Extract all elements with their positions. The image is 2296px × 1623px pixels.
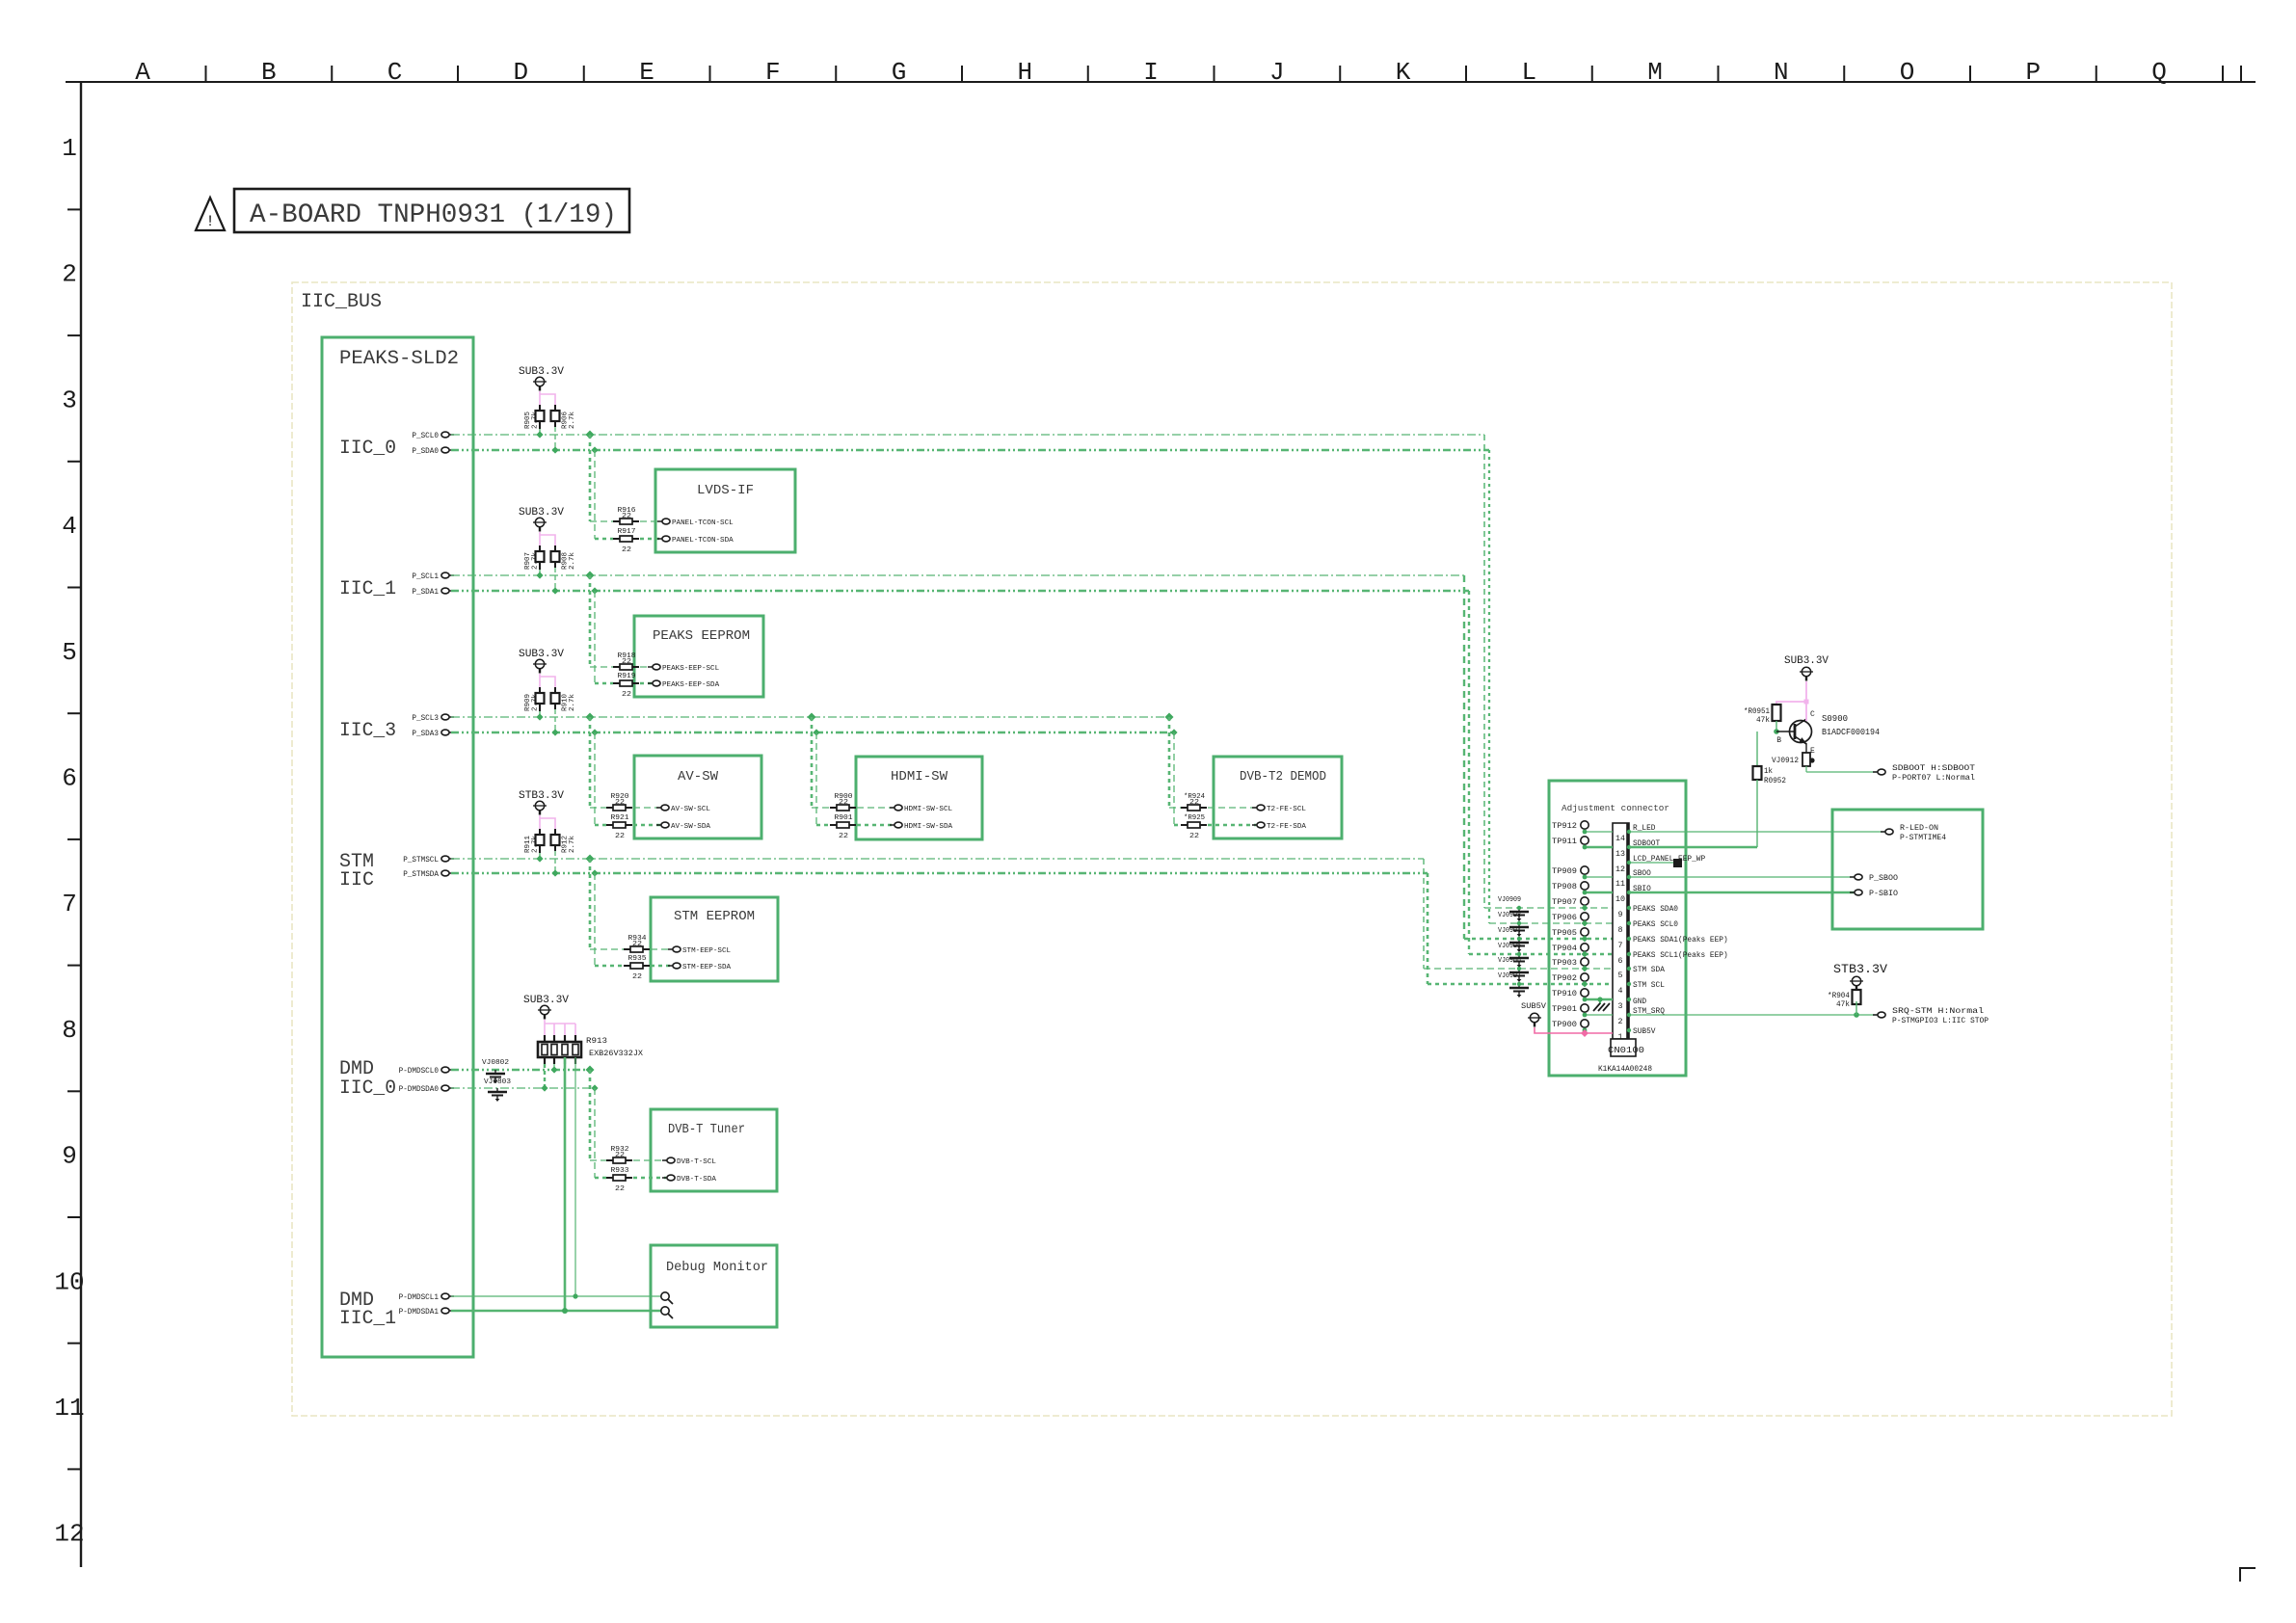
wire SDA1 riser (1468, 591, 1470, 954)
svg-text:K: K (1396, 58, 1411, 87)
corner registration mark (2240, 1568, 2256, 1582)
wire PEAKS SCL1 row (1469, 953, 1613, 956)
svg-text:*R925: *R925 (1184, 814, 1205, 822)
wire P-DMDSCL1 (451, 1295, 661, 1297)
wire R901 to pin (857, 824, 894, 827)
block AV-SW (634, 756, 761, 838)
ruler tick (67, 334, 81, 336)
resistor R924 22 (1181, 807, 1188, 809)
wire TP908 to pin10 (1585, 891, 1613, 894)
svg-text:A: A (135, 58, 150, 87)
svg-text:AV-SW-SCL: AV-SW-SCL (671, 806, 710, 813)
svg-text:P-SBIO: P-SBIO (1869, 890, 1898, 898)
svg-text:PEAKS-SLD2: PEAKS-SLD2 (339, 348, 459, 370)
svg-text:VJ0907: VJ0907 (1498, 972, 1521, 980)
wire pink pullup feed R907/R908 (539, 532, 541, 545)
ruler tick (1465, 66, 1467, 82)
svg-text:VJ0803: VJ0803 (484, 1078, 512, 1086)
svg-text:2.7k: 2.7k (532, 552, 540, 570)
wire drop to HDMI-SW SDA (813, 729, 819, 735)
wire drop to AV-SW SDA (591, 729, 598, 735)
svg-text:F: F (765, 58, 781, 87)
svg-text:TP908: TP908 (1552, 883, 1577, 891)
IIC_BUS boundary box (292, 282, 2172, 1416)
resistor R912 2.7k (554, 829, 556, 835)
svg-text:2.7k: 2.7k (532, 412, 540, 429)
svg-text:K1KA14A00248: K1KA14A00248 (1598, 1064, 1652, 1074)
svg-text:R917: R917 (618, 528, 636, 536)
svg-text:SUB3.3V: SUB3.3V (1784, 655, 1829, 667)
svg-text:G: G (892, 58, 907, 87)
svg-text:2: 2 (1618, 1018, 1623, 1026)
wire pink feed R913 (544, 1020, 546, 1035)
wire LCD_PANEL_EEP_WP stub (1629, 862, 1674, 864)
wire drop to PEAKS EEPROM SDA (591, 587, 598, 594)
svg-text:4: 4 (62, 512, 77, 541)
pin P_SBOO (1850, 876, 1855, 878)
svg-text:9: 9 (62, 1142, 77, 1171)
wire drop to DVB-T2 DEMOD SCL (1165, 713, 1174, 722)
wire R913 lead2 to DMD SCL0 (553, 1064, 555, 1070)
svg-text:VJ0908: VJ0908 (1498, 912, 1521, 919)
svg-text:R933: R933 (611, 1167, 630, 1175)
svg-text:11: 11 (1615, 880, 1625, 889)
wire R904 to SRQ row (1855, 1001, 1857, 1015)
svg-text:STM EEPROM: STM EEPROM (674, 909, 755, 924)
wire R0952 to SDBOOT row (1756, 780, 1758, 847)
resistor *R0951 47k (1773, 705, 1781, 721)
wire R932 to pin (633, 1159, 666, 1161)
svg-text:R-LED-ON: R-LED-ON (1900, 824, 1938, 833)
svg-text:5: 5 (62, 638, 77, 667)
svg-text:IIC_0: IIC_0 (339, 438, 396, 460)
block PEAKS EEPROM (634, 616, 763, 697)
wire R917 to pin (640, 538, 661, 541)
svg-text:3: 3 (62, 386, 77, 414)
wire R913 lead3 to DMD SDA1 (564, 1057, 567, 1311)
svg-text:SUB5V: SUB5V (1633, 1027, 1656, 1036)
svg-text:PEAKS-EEP-SDA: PEAKS-EEP-SDA (662, 681, 720, 689)
wire TP910 to pin3 GND (1585, 998, 1613, 1001)
jumper VJ0912 (1805, 743, 1807, 753)
svg-text:TP900: TP900 (1552, 1021, 1577, 1029)
block Adjustment connector (1549, 781, 1686, 1076)
wire SCL0 riser (1483, 435, 1485, 908)
pin HDMI-SW-SDA of HDMI-SW (890, 824, 894, 826)
svg-text:TP905: TP905 (1552, 929, 1577, 938)
wire R934 to pin (651, 948, 672, 950)
wire P_SDA3 bus (451, 732, 1174, 734)
svg-text:9: 9 (1618, 911, 1623, 919)
svg-text:P-DMDSDA0: P-DMDSDA0 (399, 1085, 440, 1094)
ruler tick (67, 838, 81, 840)
wire STM_SRQ to pin (1629, 1014, 1877, 1016)
svg-text:*R0951: *R0951 (1744, 707, 1770, 716)
resistor R906 2.7k (554, 405, 556, 411)
pin T2-FE-SDA of DVB-T2 DEMOD (1252, 824, 1257, 826)
svg-text:22: 22 (615, 1185, 625, 1193)
svg-text:STM-EEP-SDA: STM-EEP-SDA (682, 964, 732, 971)
svg-text:STB3.3V: STB3.3V (519, 790, 564, 802)
svg-text:TP901: TP901 (1552, 1005, 1577, 1014)
resistor R919 22 (613, 682, 620, 684)
svg-text:P-DMDSCL1: P-DMDSCL1 (399, 1293, 440, 1302)
pin R-LED-ON P-STMTIME4 (1881, 831, 1885, 833)
resistor R901 22 (830, 824, 837, 826)
ruler tick (583, 66, 585, 82)
wire R924 to pin (1208, 807, 1256, 809)
svg-text:22: 22 (615, 799, 625, 807)
wire SCL1 riser (1463, 575, 1465, 939)
resistor *R904 47k (1855, 986, 1857, 991)
svg-text:STB3.3V: STB3.3V (1833, 962, 1887, 976)
ruler tick (1214, 66, 1215, 82)
svg-text:P_SCL0: P_SCL0 (412, 432, 439, 440)
svg-text:11: 11 (54, 1394, 84, 1423)
svg-text:2.7k: 2.7k (569, 694, 576, 711)
svg-text:14: 14 (1615, 835, 1625, 843)
svg-text:VJ0912: VJ0912 (1772, 757, 1799, 765)
pin SDBOOT P-PORT07 (1873, 771, 1878, 773)
ruler tick (67, 1216, 81, 1218)
svg-text:TP907: TP907 (1552, 898, 1577, 907)
svg-text:IIC_BUS: IIC_BUS (301, 291, 382, 313)
wire pink pullup feed R905/R906 (539, 391, 541, 405)
wire SDA0 riser (1488, 450, 1490, 923)
svg-text:6: 6 (1618, 957, 1623, 966)
svg-text:PEAKS SCL0: PEAKS SCL0 (1633, 920, 1678, 929)
svg-text:22: 22 (839, 833, 848, 840)
resistor R909 2.7k (539, 687, 541, 693)
pin AV-SW-SDA of AV-SW (656, 824, 661, 826)
svg-text:8: 8 (1618, 926, 1623, 935)
wire pink pullup feed R909/R910 (539, 674, 541, 687)
svg-text:2.7k: 2.7k (532, 694, 540, 711)
ruler tick (1969, 66, 1971, 82)
wire P-DMDSDA1 (451, 1310, 661, 1313)
svg-text:P_SCL3: P_SCL3 (412, 714, 439, 723)
title box A-BOARD TNPH0931 (1/19) (234, 189, 629, 232)
ruler tick (1843, 66, 1845, 82)
ruler tick (67, 1468, 81, 1470)
svg-text:O: O (1900, 58, 1915, 87)
wire STMSDA riser (1427, 873, 1429, 984)
svg-text:!: ! (205, 213, 215, 230)
ground symbol at connector (1599, 999, 1601, 1004)
ruler tick (67, 208, 81, 210)
resistor R920 22 (606, 807, 613, 809)
wire R910 to SDA (554, 709, 556, 732)
svg-text:Debug Monitor: Debug Monitor (666, 1260, 768, 1275)
svg-text:IIC_3: IIC_3 (339, 720, 396, 742)
block Debug Monitor (651, 1245, 777, 1327)
svg-text:H: H (1017, 58, 1032, 87)
connector CN0100 body (1613, 823, 1629, 1039)
wire R916 to pin (640, 520, 661, 522)
svg-text:L: L (1521, 58, 1536, 87)
svg-text:22: 22 (1189, 833, 1199, 840)
wire STM SDA row (1424, 968, 1613, 970)
svg-text:P-DMDSCL0: P-DMDSCL0 (399, 1067, 440, 1076)
ruler tick (205, 66, 207, 82)
svg-text:P-STMTIME4: P-STMTIME4 (1900, 834, 1946, 842)
svg-text:IIC_0: IIC_0 (339, 1078, 396, 1100)
warning triangle symbol (196, 198, 225, 230)
svg-text:47k: 47k (1756, 716, 1770, 725)
svg-text:1k: 1k (1764, 767, 1773, 776)
svg-text:PEAKS-EEP-SCL: PEAKS-EEP-SCL (662, 665, 720, 673)
svg-text:PEAKS SDA0: PEAKS SDA0 (1633, 905, 1678, 914)
resistor R918 22 (613, 666, 620, 668)
svg-text:STM SCL: STM SCL (1633, 981, 1665, 990)
wire R912 to SDA (554, 851, 556, 873)
resistor R905 2.7k (539, 405, 541, 411)
wire drop to LVDS-IF SDA (591, 446, 598, 453)
svg-text:SUB3.3V: SUB3.3V (519, 649, 564, 660)
svg-text:VJ0909: VJ0909 (1498, 896, 1521, 904)
svg-text:D: D (513, 58, 528, 87)
svg-text:22: 22 (622, 546, 631, 554)
resistor R911 2.7k (539, 829, 541, 835)
svg-text:HDMI-SW: HDMI-SW (891, 769, 948, 785)
wire P_SCL1 bus (451, 574, 1464, 576)
svg-text:E: E (639, 58, 654, 87)
IC block PEAKS-SLD2 (322, 337, 473, 1357)
ruler tick (835, 66, 837, 82)
wire SBIO to pin (1629, 891, 1854, 894)
svg-text:1: 1 (62, 134, 77, 163)
resistor R921 22 (606, 824, 613, 826)
svg-text:VJ0802: VJ0802 (482, 1059, 509, 1067)
wire drop to DVB-T Tuner SDA (591, 1084, 598, 1091)
pin P-SBIO (1850, 891, 1855, 893)
svg-text:22: 22 (622, 658, 631, 666)
svg-text:IIC_1: IIC_1 (339, 578, 396, 600)
svg-text:2.7k: 2.7k (569, 552, 576, 570)
wire TP912 to pin14 (1585, 831, 1613, 833)
resistor R916 22 (613, 520, 620, 522)
pin PEAKS-EEP-SDA of PEAKS EEPROM (648, 682, 653, 684)
block HDMI-SW (856, 757, 982, 839)
svg-text:TP909: TP909 (1552, 867, 1577, 876)
svg-text:P_SCL1: P_SCL1 (412, 572, 439, 581)
svg-text:DVB-T Tuner: DVB-T Tuner (668, 1122, 745, 1137)
wire drop to AV-SW SCL (586, 713, 595, 722)
wire PEAKS SCL0 row (1489, 922, 1613, 924)
svg-text:R919: R919 (618, 673, 636, 680)
wire R919 to pin (640, 682, 652, 685)
wire R911 to SCL (539, 853, 541, 859)
wire R906 to SDA (554, 427, 556, 450)
svg-text:P_SDA3: P_SDA3 (412, 730, 439, 738)
svg-text:12: 12 (54, 1520, 84, 1549)
resistor R910 2.7k (554, 687, 556, 693)
svg-text:HDMI-SW-SCL: HDMI-SW-SCL (904, 806, 953, 813)
svg-text:22: 22 (615, 833, 625, 840)
ruler tick (1718, 66, 1720, 82)
wire R921 to pin (633, 824, 660, 827)
svg-text:10: 10 (54, 1267, 84, 1296)
ruler tick (2240, 66, 2242, 82)
svg-text:CN0100: CN0100 (1608, 1046, 1644, 1055)
wire R935 to pin (651, 965, 672, 968)
ruler tick (1339, 66, 1341, 82)
svg-text:*R904: *R904 (1828, 992, 1850, 1000)
svg-text:J: J (1269, 58, 1285, 87)
wire STMSCL riser (1423, 859, 1425, 969)
svg-text:EXB26V332JX: EXB26V332JX (589, 1049, 643, 1058)
svg-text:2: 2 (62, 260, 77, 289)
svg-text:SDBOOT H:SDBOOT: SDBOOT H:SDBOOT (1892, 764, 1975, 773)
svg-text:PANEL-TCON-SDA: PANEL-TCON-SDA (672, 537, 734, 545)
ruler tick (1591, 66, 1593, 82)
wire SDBOOT from connector (1629, 846, 1757, 849)
svg-text:AV-SW-SDA: AV-SW-SDA (671, 823, 710, 831)
connector shell CN0100 tab (1611, 1039, 1636, 1056)
wire emitter to SDBOOT pin (1805, 766, 1807, 772)
svg-text:IIC: IIC (339, 869, 374, 891)
wire R933 to pin (633, 1177, 666, 1180)
pin PEAKS-EEP-SCL of PEAKS EEPROM (648, 666, 653, 668)
svg-text:PEAKS SDA1(Peaks EEP): PEAKS SDA1(Peaks EEP) (1633, 936, 1728, 945)
svg-text:GND: GND (1633, 998, 1646, 1006)
block LVDS-IF (655, 469, 795, 552)
svg-text:PEAKS SCL1(Peaks EEP): PEAKS SCL1(Peaks EEP) (1633, 951, 1728, 960)
pin STM-EEP-SCL of STM EEPROM (668, 948, 673, 950)
svg-text:T2-FE-SCL: T2-FE-SCL (1267, 806, 1306, 813)
svg-text:C: C (387, 58, 403, 87)
svg-text:8: 8 (62, 1016, 77, 1045)
pin PANEL-TCON-SDA of LVDS-IF (657, 538, 662, 540)
wire SBOO to pin (1629, 876, 1854, 878)
svg-text:STM-EEP-SCL: STM-EEP-SCL (682, 947, 732, 955)
wire collector to supply (1805, 717, 1807, 721)
svg-text:AV-SW: AV-SW (678, 769, 719, 785)
svg-text:PEAKS EEPROM: PEAKS EEPROM (653, 628, 750, 644)
pin HDMI-SW-SCL of HDMI-SW (890, 807, 894, 809)
border ruler top line (66, 81, 2256, 83)
svg-text:P_STMSCL: P_STMSCL (403, 856, 439, 865)
svg-text:P_SDA1: P_SDA1 (412, 588, 439, 597)
ruler tick (331, 66, 333, 82)
svg-text:TP912: TP912 (1552, 822, 1577, 831)
wire R908 to SDA (554, 568, 556, 591)
wire R909 to SCL (539, 711, 541, 717)
wire R900 to pin (857, 807, 894, 809)
wire drop to PEAKS EEPROM SCL (586, 572, 595, 580)
ruler tick (67, 1090, 81, 1092)
ruler tick (709, 66, 711, 82)
wire P-DMDSDA0 bus (451, 1087, 597, 1089)
svg-text:TP903: TP903 (1552, 959, 1577, 968)
resistor R935 22 (624, 965, 630, 967)
svg-text:R935: R935 (628, 955, 648, 963)
wire PEAKS SDA0 row (1484, 907, 1613, 909)
wire TP901 to pin2 (1585, 1014, 1613, 1016)
wire R913 lead1 to DMD SDA0 (544, 1064, 546, 1088)
svg-text:5: 5 (1618, 971, 1623, 980)
svg-text:SUB3.3V: SUB3.3V (523, 995, 569, 1006)
svg-text:DVB-T-SDA: DVB-T-SDA (677, 1176, 716, 1184)
svg-text:SUB5V: SUB5V (1521, 1001, 1547, 1011)
svg-text:P_SBOO: P_SBOO (1869, 874, 1898, 883)
ruler tick (2096, 66, 2097, 82)
svg-text:M: M (1647, 58, 1663, 87)
svg-text:P-PORT07 L:Normal: P-PORT07 L:Normal (1892, 774, 1975, 783)
wire PEAKS SDA1 row (1464, 938, 1613, 941)
wire pink collector feed (1805, 681, 1807, 717)
resistor R900 22 (830, 807, 837, 809)
pin T2-FE-SCL of DVB-T2 DEMOD (1252, 807, 1257, 809)
svg-text:N: N (1774, 58, 1789, 87)
ruler tick (67, 461, 81, 463)
svg-text:P_STMSDA: P_STMSDA (403, 870, 439, 879)
wire R905 to SCL (539, 429, 541, 435)
svg-text:7: 7 (1618, 942, 1623, 950)
svg-text:2.7k: 2.7k (532, 836, 540, 853)
wire drop to DVB-T Tuner SCL (586, 1066, 595, 1075)
svg-text:IIC_1: IIC_1 (339, 1308, 396, 1330)
svg-text:12: 12 (1615, 865, 1625, 874)
svg-text:2.7k: 2.7k (569, 412, 576, 429)
svg-text:22: 22 (839, 799, 848, 807)
wire drop to STM EEPROM SDA (591, 869, 598, 876)
resistor R0952 1k (1756, 732, 1758, 767)
svg-text:T2-FE-SDA: T2-FE-SDA (1267, 823, 1306, 831)
resistor R933 22 (606, 1177, 613, 1179)
svg-text:B1ADCF000194: B1ADCF000194 (1822, 728, 1880, 737)
wire R925 to pin (1208, 824, 1256, 827)
svg-text:TP910: TP910 (1552, 990, 1577, 998)
svg-text:10: 10 (1615, 895, 1625, 904)
svg-text:6: 6 (62, 764, 77, 793)
resistor R932 22 (606, 1159, 613, 1161)
svg-text:TP902: TP902 (1552, 974, 1577, 983)
svg-text:P-STMGPIO3 L:IIC STOP: P-STMGPIO3 L:IIC STOP (1892, 1017, 1989, 1025)
wire drop to STM EEPROM SCL (586, 855, 595, 864)
block DVB-T2 DEMOD (1214, 757, 1342, 838)
block STM EEPROM (651, 897, 778, 981)
pin DVB-T-SDA of DVB-T Tuner (662, 1177, 667, 1179)
wire R907 to SCL (539, 570, 541, 575)
resistor R917 22 (613, 538, 620, 540)
wire drop to HDMI-SW SCL (808, 713, 816, 722)
resistor R934 22 (624, 948, 630, 950)
wire P_STMSCL bus (451, 858, 1424, 860)
wire SUB5V pink to pin1 (1535, 1027, 1613, 1033)
svg-text:DVB-T2 DEMOD: DVB-T2 DEMOD (1240, 769, 1326, 785)
wire drop to LVDS-IF SCL (586, 431, 595, 439)
resistor array R913 EXB26V332JX (544, 1035, 546, 1042)
svg-text:VJ0906: VJ0906 (1498, 957, 1521, 965)
svg-text:P-DMDSDA1: P-DMDSDA1 (399, 1308, 440, 1317)
svg-text:SUB3.3V: SUB3.3V (519, 507, 564, 519)
wire P_STMSDA bus (451, 872, 1428, 875)
wire P_SDA1 bus (451, 590, 1469, 593)
svg-text:3: 3 (1618, 1002, 1623, 1011)
svg-text:B: B (261, 58, 277, 87)
svg-text:VJ0905: VJ0905 (1498, 943, 1521, 950)
svg-text:47k: 47k (1836, 1000, 1850, 1009)
resistor R925 22 (1181, 824, 1188, 826)
ruler tick (2222, 66, 2224, 82)
wire R920 to pin (633, 807, 660, 809)
svg-text:Adjustment connector: Adjustment connector (1562, 803, 1669, 813)
probe pin Debug Monitor SDA (661, 1307, 669, 1315)
ruler tick (67, 587, 81, 589)
wire drop to DVB-T2 DEMOD SDA (1170, 729, 1177, 735)
wire R918 to pin (640, 666, 652, 668)
